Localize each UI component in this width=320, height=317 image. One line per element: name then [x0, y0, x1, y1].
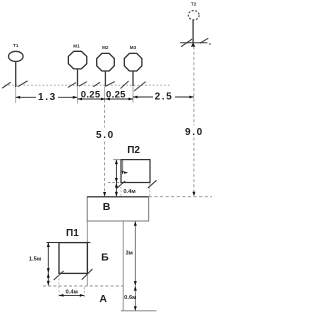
svg-text:А: А: [99, 293, 107, 305]
tree T2: [188, 2, 199, 46]
P1 height dimension 1.5m: [29, 243, 50, 273]
svg-text:М3: М3: [130, 45, 137, 50]
T2 base line: [180, 42, 207, 44]
svg-text:В: В: [103, 201, 111, 213]
V top edge dashed extension right: [149, 196, 212, 198]
stump square P2: [121, 160, 150, 183]
M1 base slash left: [68, 83, 76, 88]
P2 bottom-left extension: [108, 182, 121, 184]
extension tick M2: [104, 87, 106, 100]
P2 right edge extension down: [149, 183, 151, 196]
T1 base slash right: [18, 81, 28, 87]
P1 lower offset dimension: [47, 273, 50, 286]
svg-text:0.25: 0.25: [106, 89, 126, 100]
P2 left edge extension down: [120, 183, 122, 196]
svg-text:М2: М2: [102, 45, 109, 50]
svg-text:0.6м: 0.6м: [124, 295, 136, 301]
T2 base slash left: [181, 39, 192, 47]
extension tick M3: [132, 86, 134, 103]
extension tick T1: [15, 87, 17, 103]
dimension line 9.0 (vertical): [185, 47, 204, 197]
svg-text:П2: П2: [127, 145, 140, 156]
dimension 0.25 (M1-M2): [78, 89, 106, 100]
svg-text:2.5: 2.5: [155, 92, 174, 103]
P2 height dimension (left): [115, 160, 118, 183]
svg-text:М1: М1: [73, 43, 80, 48]
svg-text:Б: Б: [101, 251, 109, 263]
T2 station point: [191, 43, 196, 47]
M1 base slash right: [79, 82, 87, 87]
dimension 0.25 (M2-M3): [105, 89, 133, 100]
M2 base slash right: [106, 82, 115, 86]
M3 base slash left: [121, 81, 129, 88]
baseline (survey line): [5, 84, 171, 86]
svg-text:3м: 3м: [125, 251, 133, 257]
svg-text:0.25: 0.25: [81, 89, 101, 100]
dashed line top of A: [43, 285, 123, 287]
svg-text:1.3: 1.3: [38, 92, 57, 103]
tree T1: [9, 43, 24, 87]
M3 base slash right: [134, 82, 146, 91]
extension tick M1: [77, 86, 79, 103]
svg-text:1.5м: 1.5м: [29, 257, 41, 263]
T2 base slash right: [200, 38, 209, 43]
P2 corner tick bottom-right: [148, 180, 157, 188]
tree M2: [97, 45, 115, 87]
P1 corner tick bottom-left: [54, 271, 64, 280]
dimension 2.5: [133, 92, 194, 103]
stump square P1: [47, 243, 91, 274]
dimension line 5.0 (vertical): [96, 100, 115, 197]
svg-text:П1: П1: [66, 228, 79, 239]
P1 width dimension 0.4m: [59, 274, 84, 297]
P2 corner tick bottom-left: [117, 181, 125, 188]
svg-text:0.4м: 0.4м: [123, 189, 135, 195]
M2 base slash left: [93, 82, 100, 87]
svg-text:0.4м: 0.4м: [66, 290, 78, 296]
svg-text:Т2: Т2: [191, 2, 197, 7]
svg-text:9.0: 9.0: [185, 127, 204, 138]
B column left line: [86, 221, 88, 286]
B column right line: [122, 221, 124, 311]
svg-text:5.0: 5.0: [96, 130, 115, 141]
tree M1: [68, 43, 86, 86]
P2 top-left extension stub: [113, 159, 121, 161]
svg-text:Т1: Т1: [13, 43, 19, 48]
tree M3: [124, 45, 142, 86]
T2 base dot: [209, 43, 211, 45]
dimension 0.6m (vertical): [124, 286, 137, 311]
P1 corner tick bottom-right: [82, 269, 93, 280]
bottom boundary line: [121, 310, 157, 312]
T1 base slash left: [2, 82, 11, 88]
P2 dimension 0.4m (to building V): [115, 183, 136, 197]
P2 inner mini dimension: [122, 160, 129, 174]
building V rectangle: [87, 197, 149, 221]
dimension 1.3: [16, 92, 78, 103]
dimension 3m (vertical): [125, 221, 136, 285]
